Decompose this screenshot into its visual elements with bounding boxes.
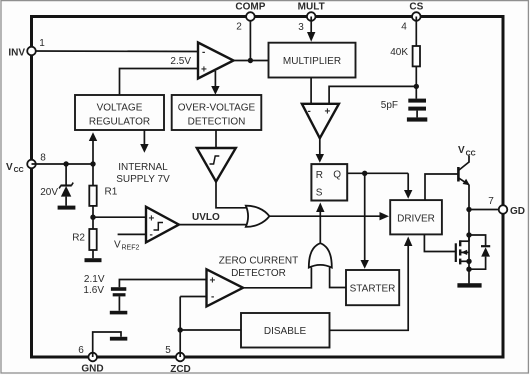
wire Q node down to starter (arrow)	[364, 173, 366, 261]
pin 1 INV	[27, 47, 36, 56]
junction drain node	[466, 232, 471, 237]
pin 5 ZCD	[176, 353, 185, 362]
wire driver to MOSFET gate	[424, 234, 455, 251]
svg-text:20V: 20V	[40, 187, 58, 198]
ground bar below zener	[58, 206, 76, 210]
svg-text:CC: CC	[466, 151, 476, 158]
wire output stage to ground	[468, 269, 470, 283]
svg-text:+: +	[325, 107, 331, 118]
block VOLTAGE REGULATOR	[75, 95, 164, 130]
wire GD node to pin 7	[469, 209, 499, 211]
junction Q node	[362, 171, 367, 176]
junction CS divider node	[414, 84, 419, 89]
svg-text:2.1V: 2.1V	[84, 274, 105, 285]
junction R1/R2 divider node	[90, 215, 95, 220]
wire Q node down into driver (arrow)	[407, 173, 409, 191]
pin 2 COMP	[246, 12, 255, 21]
svg-text:1: 1	[39, 38, 45, 49]
svg-text:GD: GD	[510, 206, 525, 217]
svg-text:+: +	[210, 276, 216, 287]
svg-text:ZERO CURRENT: ZERO CURRENT	[219, 256, 298, 267]
svg-text:+: +	[201, 65, 207, 76]
wire vcc to voltage regulator (arrow up)	[92, 140, 94, 164]
wire divider to UVLO comparator + input	[93, 216, 146, 218]
wire ZCD node to disable block	[180, 329, 241, 331]
svg-text:GND: GND	[81, 364, 103, 375]
svg-text:-: -	[308, 106, 311, 117]
ground bar below MOSFET	[457, 283, 481, 287]
svg-text:R1: R1	[105, 187, 118, 198]
ground bar below 5pF	[407, 117, 427, 121]
label ZERO CURRENT DETECTOR	[219, 256, 298, 280]
svg-text:COMP: COMP	[235, 2, 265, 13]
svg-text:R2: R2	[72, 233, 85, 244]
diode body (parallel with MOSFET)	[469, 235, 490, 269]
junction ZCD node	[178, 327, 183, 332]
svg-text:Q: Q	[333, 170, 341, 181]
clamp on GND pin	[93, 332, 128, 357]
wire flag triangle to OR gate top input	[216, 182, 247, 208]
pin 8 VCC	[27, 160, 36, 169]
svg-text:MULTIPLIER: MULTIPLIER	[283, 56, 341, 67]
svg-text:INTERNAL: INTERNAL	[118, 162, 168, 173]
svg-text:2: 2	[236, 22, 242, 33]
pin 7 GD	[499, 205, 508, 214]
svg-text:1.6V: 1.6V	[83, 285, 104, 296]
wire disable to driver (arrow)	[330, 245, 409, 330]
svg-text:40K: 40K	[390, 47, 408, 58]
transistor NPN high-side	[458, 162, 469, 185]
resistor R1	[89, 164, 96, 229]
svg-text:VOLTAGE: VOLTAGE	[97, 103, 143, 114]
wire OR gate output to driver (arrow)	[269, 215, 380, 217]
ground bar below R2	[85, 258, 102, 262]
wire VREF2 to UVLO comparator - input	[118, 233, 146, 235]
svg-text:SUPPLY 7V: SUPPLY 7V	[116, 174, 170, 185]
clamp 2.1V/1.6V on ZCD input	[110, 280, 207, 315]
capacitor 5pF	[408, 99, 426, 118]
svg-text:7: 7	[488, 196, 494, 207]
svg-text:-: -	[202, 47, 205, 58]
wire INV pin to error amp inverting input	[32, 50, 199, 53]
wire error amp to over-voltage detection (arrow)	[214, 71, 216, 87]
svg-text:8: 8	[40, 153, 46, 164]
label VREF2	[114, 240, 140, 252]
wire MULT pin into multiplier (arrow)	[310, 17, 312, 34]
wire BJT emitter down output node	[468, 185, 470, 269]
wire starter output to S-OR gate	[330, 268, 346, 288]
junction source node	[466, 259, 471, 264]
block STARTER	[346, 270, 399, 305]
wire S-OR output to latch S input (arrow)	[319, 211, 321, 243]
svg-text:ZCD: ZCD	[170, 364, 191, 375]
wire PWM comparator to latch R input (arrow)	[319, 138, 321, 155]
svg-text:S: S	[316, 188, 323, 199]
junction zener node	[63, 161, 68, 166]
label INTERNAL SUPPLY 7V	[116, 162, 170, 185]
svg-text:DRIVER: DRIVER	[397, 214, 435, 225]
svg-text:DETECTION: DETECTION	[188, 117, 246, 128]
wire multiplier output to PWM comparator - input	[310, 78, 312, 105]
op-amp error amplifier	[198, 43, 234, 79]
junction GD node	[466, 207, 471, 212]
svg-text:R: R	[316, 170, 323, 181]
svg-text:DETECTOR: DETECTOR	[231, 268, 286, 279]
block OVER-VOLTAGE DETECTION	[172, 95, 262, 130]
svg-text:MULT: MULT	[298, 2, 325, 13]
pin 6 GND	[88, 353, 97, 362]
wire UVLO output to OR gate	[179, 224, 247, 226]
svg-text:+: +	[149, 214, 155, 225]
wire driver top to BJT base	[425, 174, 458, 200]
svg-text:-: -	[211, 292, 214, 303]
svg-text:4: 4	[401, 22, 407, 33]
svg-text:STARTER: STARTER	[350, 284, 396, 295]
wire error amp output to multiplier	[233, 60, 269, 62]
svg-text:2.5V: 2.5V	[170, 56, 191, 67]
junction COMP node	[248, 58, 253, 63]
resistor R2	[89, 229, 96, 258]
svg-text:CC: CC	[14, 167, 24, 174]
svg-text:V: V	[114, 240, 121, 251]
junction diode anode node	[466, 267, 471, 272]
OR gate (UVLO / OVD)	[246, 206, 270, 227]
wire BJT collector to VCC	[468, 156, 470, 163]
svg-text:UVLO: UVLO	[192, 212, 220, 223]
OR gate (set: ZCD / starter)	[309, 243, 332, 267]
svg-text:6: 6	[78, 345, 84, 356]
wire latch Q output line	[347, 172, 408, 174]
comparator over-voltage flag (triangle with hysteresis)	[197, 148, 236, 182]
zener diode 20V on VCC	[59, 164, 73, 206]
block DRIVER	[390, 200, 442, 234]
wire 2.5V reference from voltage regulator to error amp + input	[120, 69, 199, 96]
svg-text:5pF: 5pF	[381, 100, 398, 111]
wire COMP pin riser to error amp output	[249, 17, 251, 61]
svg-text:V: V	[458, 145, 465, 156]
svg-text:REGULATOR: REGULATOR	[89, 117, 150, 128]
junction R1 top node	[90, 161, 95, 166]
svg-text:REF2: REF2	[122, 245, 140, 252]
svg-text:V: V	[6, 162, 13, 173]
comparator PWM (multiplier vs CS)	[302, 104, 339, 138]
svg-text:5: 5	[165, 345, 171, 356]
svg-text:INV: INV	[8, 48, 25, 59]
block MULTIPLIER	[269, 43, 356, 78]
wire VCC rail	[32, 163, 94, 165]
resistor 40K	[413, 17, 420, 99]
svg-text:CS: CS	[409, 2, 423, 13]
wire CS divider to PWM comparator + input	[329, 86, 416, 104]
svg-text:DISABLE: DISABLE	[264, 326, 307, 337]
label VCC (output stage)	[458, 145, 476, 158]
pin 4 CS	[412, 12, 421, 21]
wire ZCD comparator output to S-OR gate	[243, 268, 311, 288]
block DISABLE	[241, 313, 330, 348]
svg-text:3: 3	[298, 22, 304, 33]
pin 3 MULT	[307, 12, 316, 21]
wire ZCD to comparator - input	[180, 296, 207, 298]
latch RS flip-flop	[311, 164, 347, 200]
transistor output MOSFET	[456, 235, 469, 264]
wire OVD block to flag triangle	[215, 130, 217, 148]
svg-text:-: -	[150, 230, 153, 241]
comparator UVLO	[146, 207, 179, 243]
svg-text:OVER-VOLTAGE: OVER-VOLTAGE	[178, 103, 256, 114]
wire voltage regulator to internal supply (arrow down)	[143, 130, 145, 145]
comparator zero current detector	[207, 269, 244, 306]
wire ZCD pin riser	[179, 297, 181, 358]
